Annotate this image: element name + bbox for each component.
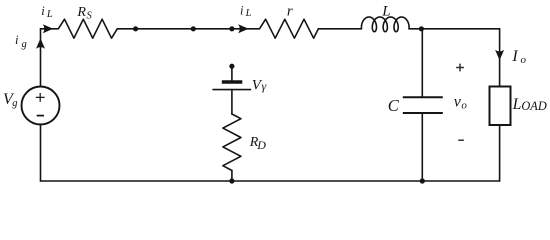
svg-text:Vγ: Vγ xyxy=(252,77,267,93)
svg-text:LOAD: LOAD xyxy=(512,96,547,113)
svg-text:RD: RD xyxy=(249,135,267,152)
svg-text:C: C xyxy=(388,96,400,115)
svg-text:L: L xyxy=(381,3,390,19)
svg-text:r: r xyxy=(287,4,293,20)
